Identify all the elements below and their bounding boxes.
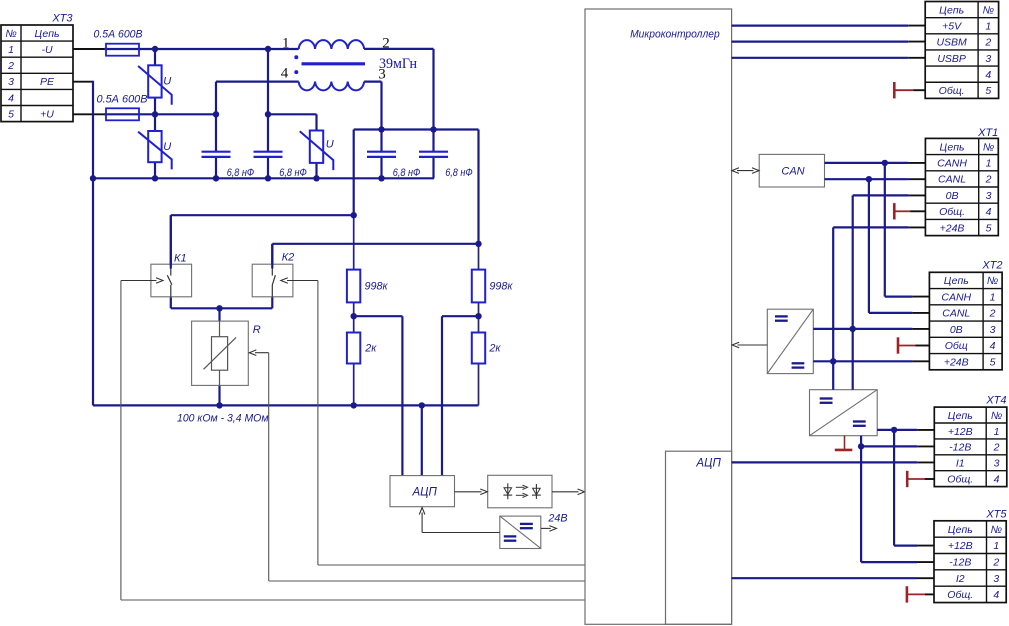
svg-text:Общ.: Общ.	[939, 206, 965, 218]
svg-text:2: 2	[993, 442, 1000, 454]
svg-text:3: 3	[993, 573, 999, 585]
svg-text:ХТ5: ХТ5	[985, 508, 1007, 520]
svg-text:+12В: +12В	[948, 540, 973, 552]
svg-text:№: №	[987, 275, 998, 287]
svg-text:Цепь: Цепь	[944, 275, 969, 287]
svg-text:4: 4	[986, 206, 992, 218]
svg-text:-12В: -12В	[949, 442, 971, 454]
svg-text:2: 2	[7, 60, 14, 72]
svg-text:1: 1	[8, 44, 14, 56]
svg-text:1: 1	[990, 291, 996, 303]
svg-text:CANH: CANH	[937, 158, 967, 170]
svg-text:№: №	[983, 141, 994, 153]
svg-text:2к: 2к	[488, 343, 501, 355]
svg-text:Цепь: Цепь	[940, 141, 965, 153]
svg-text:4: 4	[994, 473, 1000, 485]
svg-text:2к: 2к	[364, 343, 377, 355]
svg-text:К1: К1	[174, 253, 187, 265]
svg-text:+12В: +12В	[948, 426, 973, 438]
svg-text:ХТ3: ХТ3	[51, 13, 73, 25]
svg-text:3: 3	[8, 76, 14, 88]
svg-text:№: №	[5, 28, 16, 40]
svg-text:Цепь: Цепь	[939, 4, 964, 16]
svg-text:+U: +U	[40, 108, 54, 120]
svg-text:6,8 нФ: 6,8 нФ	[393, 167, 421, 179]
svg-text:1: 1	[994, 426, 1000, 438]
svg-text:CANH: CANH	[941, 291, 971, 303]
svg-text:1: 1	[993, 540, 999, 552]
svg-text:Микроконтроллер: Микроконтроллер	[630, 28, 720, 40]
svg-text:4: 4	[985, 69, 991, 81]
svg-text:+24В: +24В	[944, 356, 969, 368]
svg-text:6,8 нФ: 6,8 нФ	[445, 167, 473, 179]
svg-text:Общ.: Общ.	[947, 473, 973, 485]
svg-text:АЦП: АЦП	[695, 457, 721, 469]
svg-text:Цепь: Цепь	[948, 524, 973, 536]
svg-text:3: 3	[986, 190, 992, 202]
svg-text:I2: I2	[956, 573, 965, 585]
svg-text:1: 1	[986, 158, 992, 170]
svg-text:R: R	[253, 324, 261, 336]
svg-text:1: 1	[985, 21, 991, 33]
svg-text:2: 2	[985, 174, 992, 186]
svg-text:Цепь: Цепь	[34, 28, 59, 40]
svg-text:CANL: CANL	[938, 174, 966, 186]
svg-text:ХТ2: ХТ2	[981, 260, 1002, 272]
svg-text:998к: 998к	[365, 281, 389, 293]
svg-text:0.5А 600В: 0.5А 600В	[97, 94, 148, 106]
svg-text:39мГн: 39мГн	[379, 56, 417, 72]
svg-text:5: 5	[985, 85, 991, 97]
svg-text:ХТ4: ХТ4	[985, 395, 1006, 407]
svg-text:I1: I1	[956, 458, 965, 470]
svg-text:5: 5	[990, 356, 996, 368]
svg-text:ХТ1: ХТ1	[977, 127, 998, 139]
svg-text:Цепь: Цепь	[948, 410, 973, 422]
svg-text:0.5А 600В: 0.5А 600В	[94, 29, 143, 41]
svg-text:6,8 нФ: 6,8 нФ	[279, 167, 307, 179]
svg-text:U: U	[163, 141, 171, 153]
svg-text:USBP: USBP	[937, 53, 966, 65]
svg-text:2: 2	[984, 37, 991, 49]
svg-text:5: 5	[986, 222, 992, 234]
svg-text:PE: PE	[40, 76, 55, 88]
svg-text:3: 3	[990, 324, 996, 336]
svg-text:U: U	[326, 138, 334, 150]
svg-text:U: U	[163, 76, 171, 88]
svg-text:6,8 нФ: 6,8 нФ	[227, 167, 255, 179]
svg-text:3: 3	[985, 53, 991, 65]
svg-text:5: 5	[8, 108, 14, 120]
svg-text:К2: К2	[282, 252, 295, 264]
svg-text:2: 2	[992, 556, 999, 568]
svg-text:№: №	[991, 524, 1002, 536]
svg-text:-U: -U	[41, 44, 52, 56]
svg-text:2: 2	[382, 36, 390, 52]
svg-text:998к: 998к	[489, 281, 513, 293]
svg-text:4: 4	[8, 92, 14, 104]
svg-text:CANL: CANL	[942, 308, 970, 320]
svg-text:Общ.: Общ.	[947, 589, 973, 601]
svg-text:USBM: USBM	[936, 37, 967, 49]
svg-text:4: 4	[990, 340, 996, 352]
svg-text:№: №	[991, 410, 1002, 422]
svg-text:-12В: -12В	[949, 556, 971, 568]
svg-text:АЦП: АЦП	[412, 486, 438, 498]
svg-text:3: 3	[994, 458, 1000, 470]
svg-text:Общ: Общ	[945, 340, 968, 352]
svg-text:CAN: CAN	[781, 166, 804, 178]
svg-text:0В: 0В	[950, 324, 963, 336]
svg-text:№: №	[983, 4, 994, 16]
svg-text:100 кОм - 3,4 МОм: 100 кОм - 3,4 МОм	[177, 412, 269, 424]
svg-text:4: 4	[281, 66, 289, 82]
svg-text:2: 2	[989, 308, 996, 320]
svg-text:+24В: +24В	[940, 222, 965, 234]
svg-text:24В: 24В	[547, 512, 567, 524]
svg-text:4: 4	[993, 589, 999, 601]
svg-text:0В: 0В	[946, 190, 959, 202]
svg-text:+5V: +5V	[942, 21, 962, 33]
svg-text:Общ.: Общ.	[939, 85, 965, 97]
svg-text:1: 1	[282, 36, 290, 52]
